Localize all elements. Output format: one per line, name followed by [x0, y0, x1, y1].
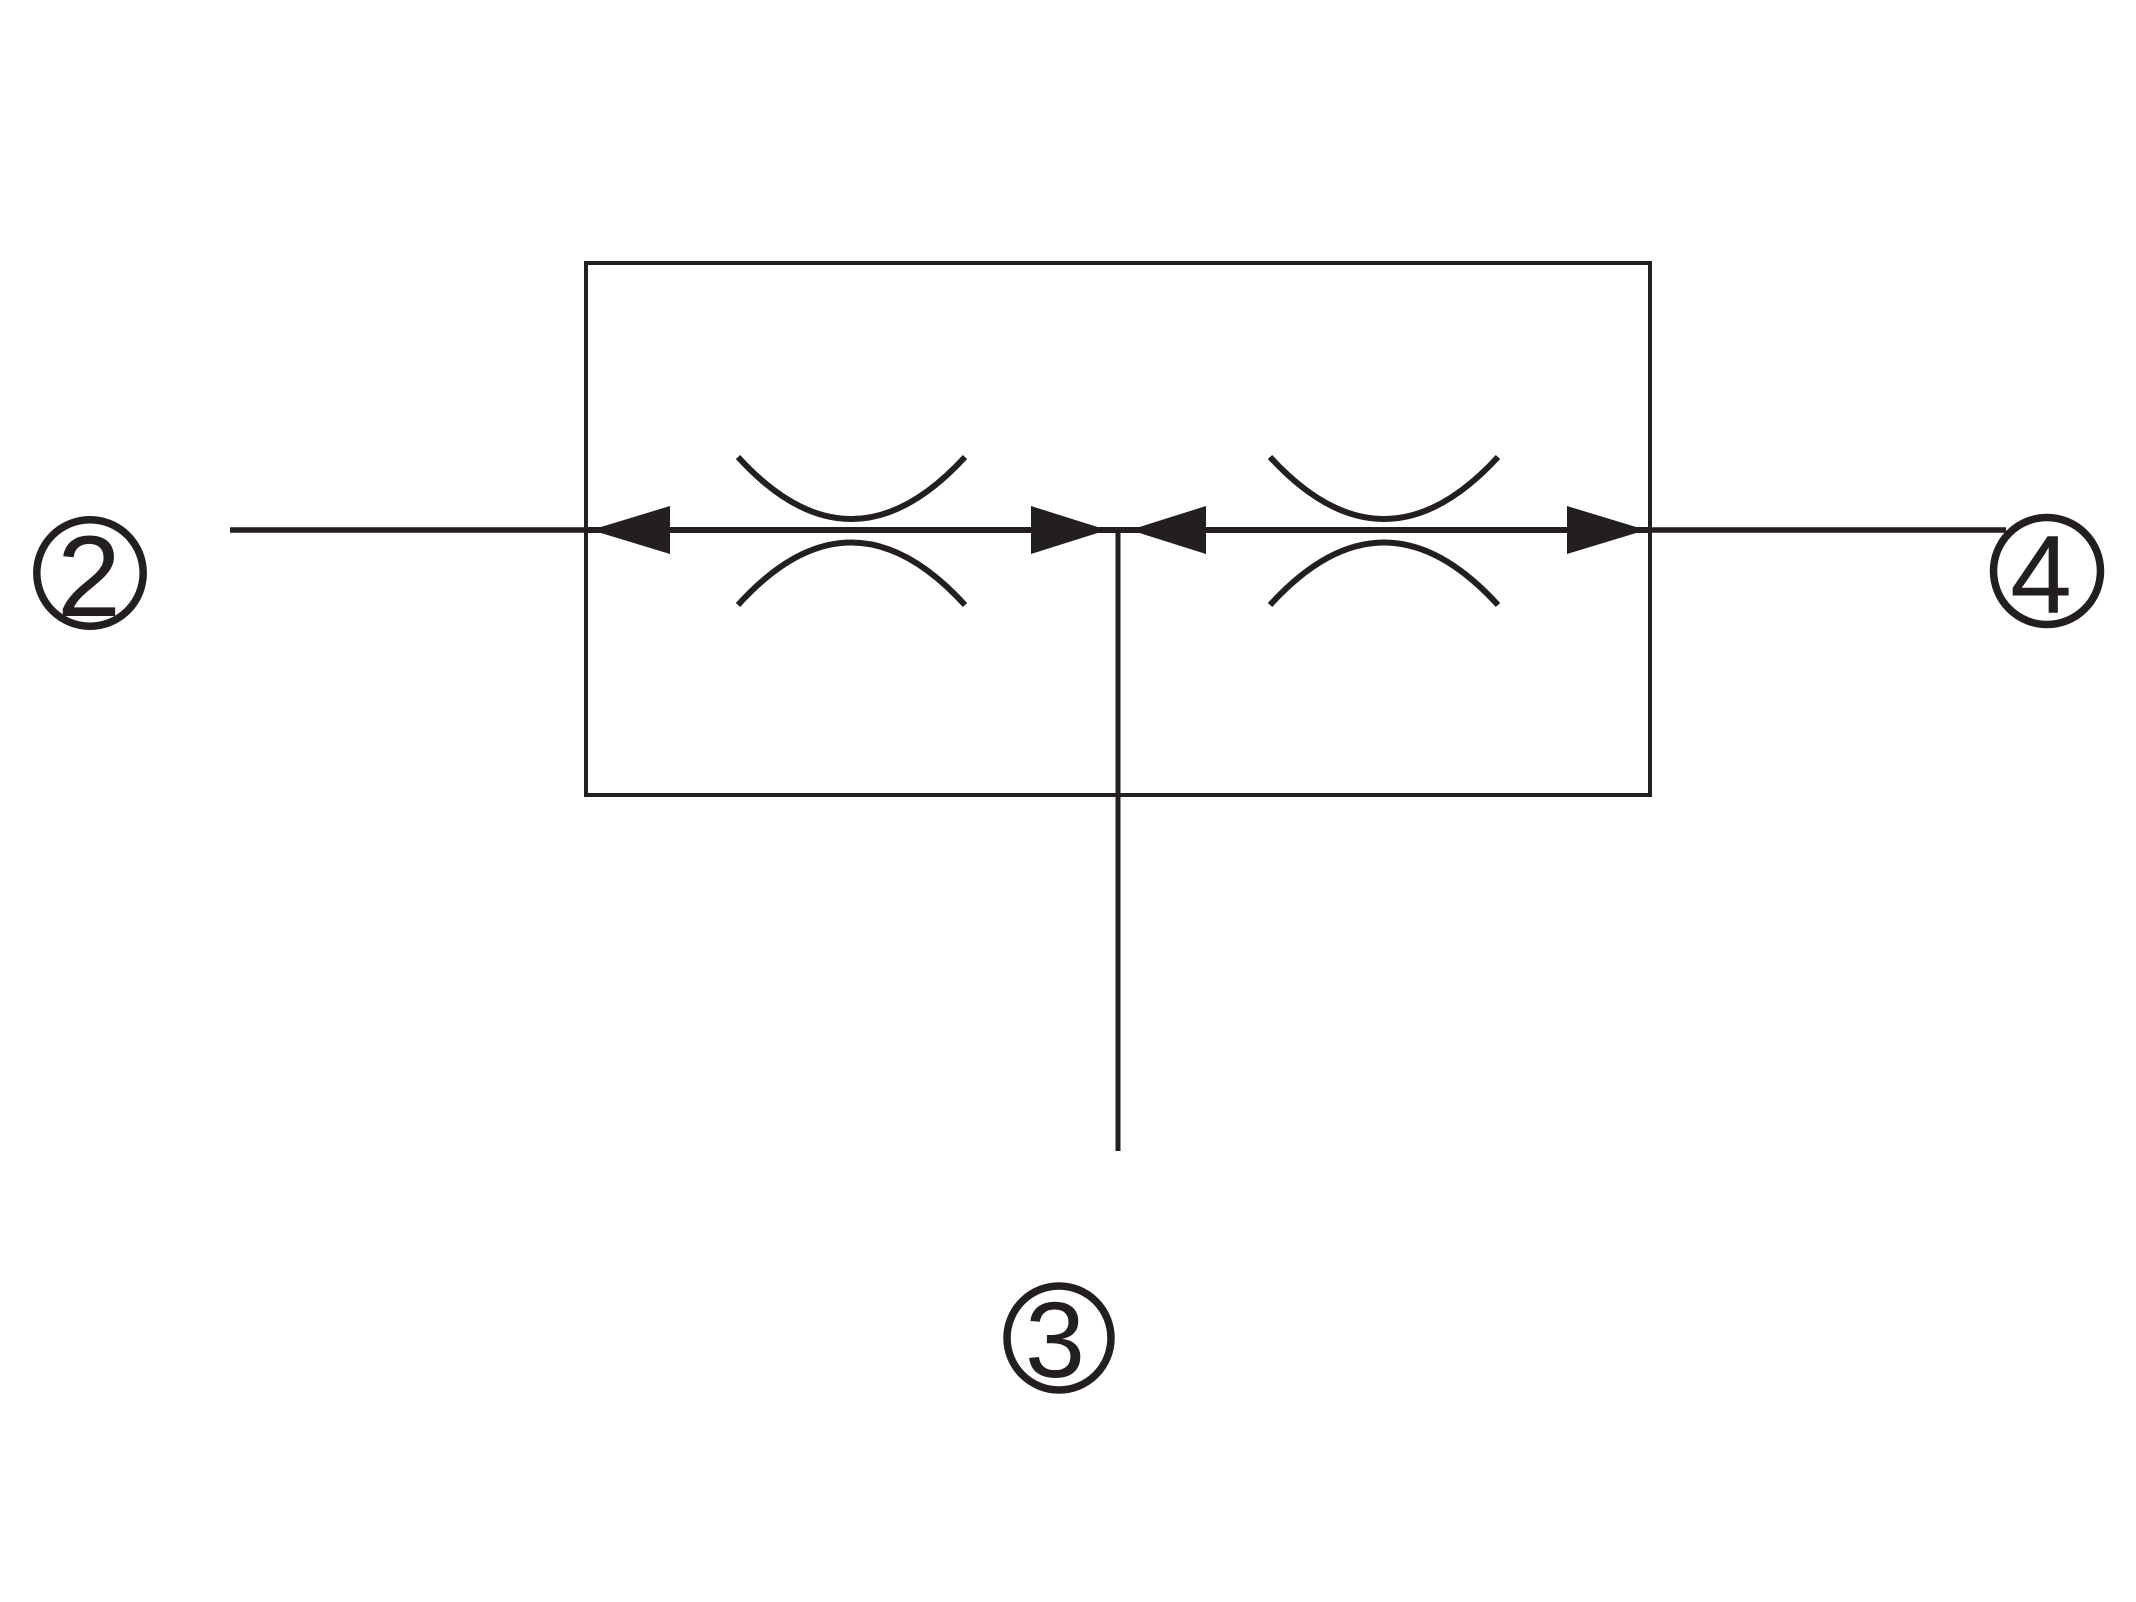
- wire: horizontal flow line port 2 to port 4: [230, 527, 2006, 533]
- port circle 4: [1994, 518, 2101, 625]
- orifice 1 bottom arc: [738, 543, 965, 606]
- port circle 3: [1007, 1286, 1111, 1390]
- orifice 1 top arc: [738, 457, 965, 519]
- valve body rectangle: [586, 263, 1650, 795]
- arrowhead pointing left at center junction: [1130, 506, 1206, 554]
- orifice 2 top arc: [1270, 457, 1498, 519]
- svg-text:3: 3: [1025, 1279, 1085, 1400]
- svg-text:4: 4: [2010, 513, 2072, 637]
- arrowhead pointing left at port 2 side: [591, 506, 670, 554]
- svg-text:2: 2: [57, 513, 121, 641]
- arrowhead pointing right at center junction: [1031, 506, 1107, 554]
- arrowhead pointing right at port 4 side: [1567, 506, 1646, 554]
- orifice 2 bottom arc: [1270, 543, 1498, 606]
- wire: vertical line to port 3: [1116, 530, 1121, 1151]
- wire: thicker flow segment inside valve body: [588, 527, 1648, 533]
- port circle 2: [37, 520, 143, 626]
